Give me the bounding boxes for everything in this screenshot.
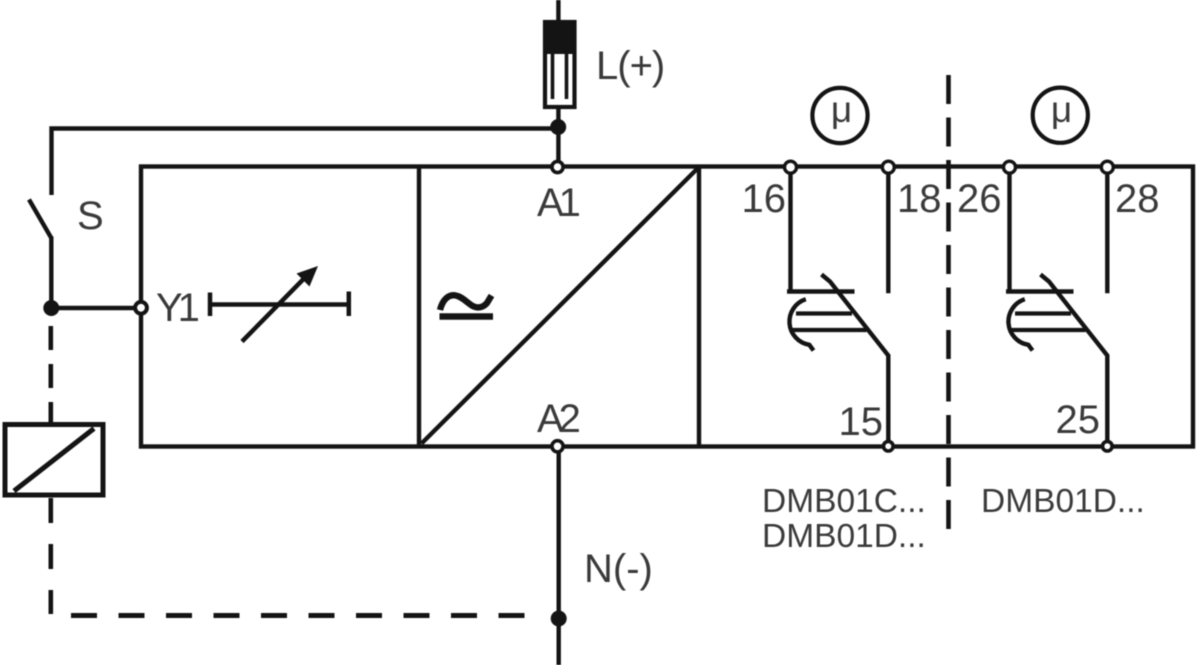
terminal 18 <box>882 161 894 173</box>
delay chord upper K2 <box>1015 311 1071 315</box>
load box diagonal <box>14 429 94 492</box>
supply diagonal <box>422 169 698 444</box>
svg-text:S: S <box>77 194 104 238</box>
pot end bar right <box>347 292 352 317</box>
fuse F1 <box>543 20 577 107</box>
pot arrow head <box>297 266 319 287</box>
node junction below fuse <box>550 119 566 135</box>
pot track <box>210 302 349 307</box>
divider 2 <box>697 167 701 447</box>
svg-text:16: 16 <box>742 177 787 221</box>
contact blade to terminal 15 <box>822 275 889 441</box>
pot arrow shaft <box>242 276 307 342</box>
wire switch to node <box>49 237 53 309</box>
NC contact bar K2 <box>1006 289 1074 293</box>
switch S <box>29 200 51 239</box>
wire node to Y1 <box>51 306 135 310</box>
terminal Y1 <box>135 302 147 314</box>
dashed wire below coil <box>48 498 53 614</box>
relay contact K1 <box>787 173 888 441</box>
wire terminal 18 down <box>886 173 890 294</box>
svg-text:DMB01D...: DMB01D... <box>762 518 926 555</box>
fuse inner element right <box>565 54 569 99</box>
supply AC/DC symbol <box>440 295 494 316</box>
svg-text:Y1: Y1 <box>156 286 199 330</box>
mu symbol circle 1 <box>812 88 867 143</box>
wire A2 down to bottom <box>557 453 561 665</box>
potentiometer timing adjust <box>210 266 349 342</box>
svg-text:N(-): N(-) <box>584 547 653 591</box>
NC contact bar <box>787 289 855 293</box>
terminal 16 <box>785 161 797 173</box>
delay chord lower K2 <box>1009 328 1086 332</box>
delay chord upper <box>796 311 852 315</box>
divider 1 <box>417 167 421 447</box>
wire fuse to node <box>556 107 560 127</box>
contact blade to terminal 25 <box>1041 275 1108 441</box>
svg-text:A2: A2 <box>537 397 580 441</box>
wire node to A1 <box>556 127 560 161</box>
dashed wire horizontal to N node <box>71 613 546 618</box>
terminal A2 <box>552 441 563 452</box>
node junction left <box>43 300 59 316</box>
delay device arc K2 <box>1008 299 1032 350</box>
delay device arc <box>789 299 813 350</box>
pot end bar left <box>208 293 213 317</box>
node junction N <box>551 611 567 627</box>
wire terminal 26 down <box>1007 173 1011 294</box>
dashed wire S-node down to coil <box>48 318 53 424</box>
DC underline <box>440 313 494 319</box>
terminal 26 <box>1004 161 1016 173</box>
load coil box <box>5 425 103 496</box>
device box outline <box>141 167 1193 447</box>
wire terminal 28 down <box>1105 173 1109 294</box>
svg-text:26: 26 <box>957 177 1002 221</box>
load box outline <box>5 425 103 496</box>
svg-text:A1: A1 <box>537 181 580 225</box>
fuse cap filled <box>543 20 577 54</box>
wire top horizontal <box>52 129 559 196</box>
fuse body outline <box>545 22 575 107</box>
svg-text:15: 15 <box>839 400 884 444</box>
svg-text:μ: μ <box>831 89 852 130</box>
svg-text:28: 28 <box>1115 177 1160 221</box>
svg-text:18: 18 <box>897 177 942 221</box>
delay chord lower <box>790 328 867 332</box>
wire terminal 16 down <box>788 173 792 294</box>
terminal 28 <box>1101 161 1113 173</box>
dashed separator line <box>946 75 951 542</box>
svg-text:25: 25 <box>1056 398 1101 442</box>
wire top feed to fuse <box>556 0 560 22</box>
terminal 15 <box>884 441 894 451</box>
terminal 25 <box>1103 441 1113 451</box>
svg-text:L(+): L(+) <box>596 44 664 88</box>
mu symbol circle 2 <box>1033 88 1088 143</box>
fuse inner element left <box>551 54 555 99</box>
AC tilde <box>440 295 492 310</box>
relay contact K2 <box>1006 173 1107 441</box>
svg-text:DMB01C...: DMB01C... <box>762 483 926 520</box>
svg-text:DMB01D...: DMB01D... <box>981 483 1145 520</box>
terminal A1 <box>552 161 563 172</box>
svg-text:μ: μ <box>1051 89 1072 130</box>
